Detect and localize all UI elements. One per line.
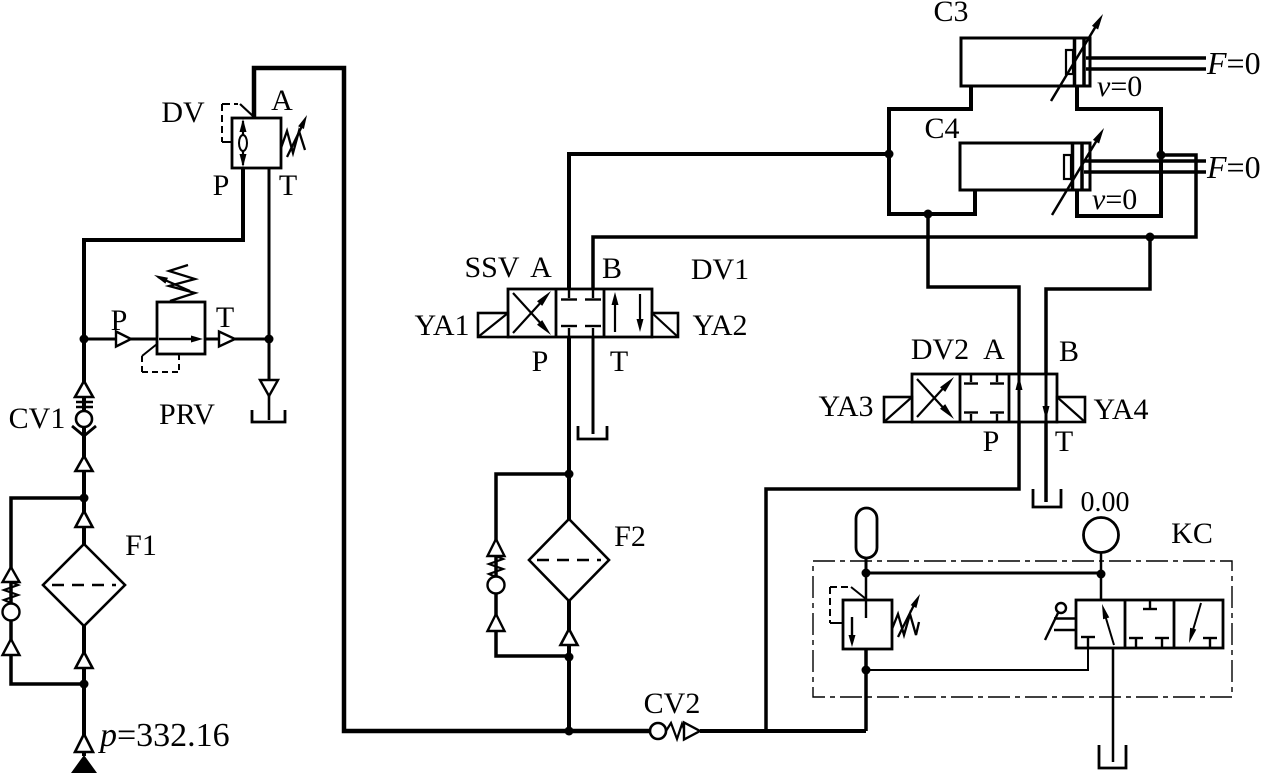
pressure gauge <box>1084 518 1119 553</box>
svg-text:YA1: YA1 <box>414 309 469 342</box>
label v=0 of C3 <box>1097 70 1142 103</box>
flow arrow above filter F1 <box>76 511 93 527</box>
wire DV P port to pump column <box>84 168 243 756</box>
svg-text:SSV: SSV <box>464 251 519 284</box>
svg-text:YA2: YA2 <box>692 309 747 342</box>
wire accumulator to gauge pilot line <box>866 553 1101 600</box>
svg-text:A: A <box>530 251 552 284</box>
check valve CV1 <box>72 381 96 436</box>
svg-text:T: T <box>1055 425 1073 458</box>
wire F1 bypass loop <box>11 498 84 684</box>
valve SSV/DV1 directional valve body <box>478 289 678 337</box>
svg-text:A: A <box>983 333 1005 366</box>
label YA3 <box>818 390 873 423</box>
label P of PRV <box>111 304 128 337</box>
label F=0 of C3 <box>1206 45 1261 81</box>
wire SSV P line through filter F2 to main line <box>567 337 571 731</box>
wire KC relief valve column <box>865 573 868 731</box>
label YA1 <box>414 309 469 342</box>
label T of SSV <box>610 345 628 378</box>
cylinder C4 <box>960 128 1206 215</box>
wire cylinder cap-side net C3/C4 <box>889 86 975 214</box>
valve DV2 directional valve body <box>884 374 1085 422</box>
label T of PRV <box>216 301 234 334</box>
label A of DV <box>271 84 293 117</box>
svg-text:P: P <box>213 169 230 202</box>
label CV2 <box>644 687 701 720</box>
flow arrow below F2 <box>561 629 578 645</box>
svg-text:KC: KC <box>1171 517 1213 550</box>
label C4 <box>924 112 959 145</box>
svg-text:P: P <box>111 304 128 337</box>
KC manual lever actuator <box>1045 603 1076 640</box>
label P of DV2 <box>983 425 1000 458</box>
svg-text:DV: DV <box>161 96 205 129</box>
label CV1 <box>9 402 66 435</box>
wire DV2 B branch and T to tank <box>1046 237 1150 502</box>
svg-text:C4: C4 <box>924 112 959 145</box>
svg-text:YA4: YA4 <box>1093 393 1148 426</box>
svg-text:CV1: CV1 <box>9 402 66 435</box>
flow arrow below filter F1 <box>76 652 93 668</box>
label A of SSV <box>530 251 552 284</box>
svg-text:v=0: v=0 <box>1092 183 1137 216</box>
svg-text:F1: F1 <box>125 529 157 562</box>
bypass check valve of F2 <box>488 539 505 631</box>
wire SSV B line to rod net <box>593 155 1196 289</box>
label F1 <box>125 529 157 562</box>
wire KC valve T line to tank <box>1112 648 1115 762</box>
label p=332.16 <box>98 717 230 754</box>
label DV <box>161 96 205 129</box>
label F2 <box>614 520 646 553</box>
filter F1 <box>43 544 125 626</box>
valve DV flow control with labels <box>222 104 307 168</box>
wire cylinder rod-side net C3/C4 <box>1077 86 1161 216</box>
check valve CV2 <box>650 723 700 740</box>
filter F2 <box>529 519 609 601</box>
svg-text:C3: C3 <box>933 0 968 28</box>
label B of DV2 <box>1059 335 1079 368</box>
tank symbol under PRV/DV T line <box>252 380 285 422</box>
wire DV2 A branch and P return to main line <box>766 214 1019 731</box>
svg-text:P: P <box>532 345 549 378</box>
svg-text:v=0: v=0 <box>1097 70 1142 103</box>
svg-text:T: T <box>610 345 628 378</box>
svg-text:F=0: F=0 <box>1206 45 1261 81</box>
svg-text:T: T <box>279 169 297 202</box>
pump source solid triangle <box>71 755 97 773</box>
label SSV <box>464 251 519 284</box>
svg-text:DV2: DV2 <box>911 333 969 366</box>
label F=0 of C4 <box>1206 149 1261 185</box>
svg-text:P: P <box>983 425 1000 458</box>
bypass check valve of F1 <box>3 567 20 655</box>
wire main pressure line from DV-A via long right/bottom run <box>254 68 866 731</box>
label P of DV <box>213 169 230 202</box>
KC manual directional valve <box>1076 600 1223 648</box>
label B of SSV <box>602 252 622 285</box>
svg-text:DV1: DV1 <box>691 253 749 286</box>
wire F2 bypass loop <box>496 474 569 656</box>
tank symbol under DV2 T <box>1033 489 1061 507</box>
wire SSV A line to cylinder cap net <box>569 154 889 289</box>
svg-text:B: B <box>1059 335 1079 368</box>
label DV2 <box>911 333 969 366</box>
svg-text:PRV: PRV <box>159 398 215 431</box>
flow arrow above pump <box>75 734 93 752</box>
label T of DV2 <box>1055 425 1073 458</box>
label KC <box>1171 517 1213 550</box>
label v=0 of C4 <box>1092 183 1137 216</box>
svg-text:p=332.16: p=332.16 <box>98 717 230 754</box>
label 0.00 <box>1081 487 1130 518</box>
svg-text:F=0: F=0 <box>1206 149 1261 185</box>
svg-text:YA3: YA3 <box>818 390 873 423</box>
valve PRV pressure reducing valve <box>116 265 235 372</box>
svg-text:CV2: CV2 <box>644 687 701 720</box>
junction node dots <box>80 150 1166 736</box>
svg-text:F2: F2 <box>614 520 646 553</box>
label P of SSV <box>532 345 549 378</box>
label DV1 <box>691 253 749 286</box>
label A of DV2 <box>983 333 1005 366</box>
svg-text:A: A <box>271 84 293 117</box>
label T of DV <box>279 169 297 202</box>
label YA2 <box>692 309 747 342</box>
flow arrow on pump column above F1 <box>76 456 93 471</box>
wire KC relief branch to KC valve port <box>866 648 1088 670</box>
wire PRV inlet and outlet line <box>84 338 269 341</box>
label PRV <box>159 398 215 431</box>
label YA4 <box>1093 393 1148 426</box>
KC relief valve <box>830 587 920 649</box>
wire SSV T to tank <box>592 337 595 434</box>
svg-text:T: T <box>216 301 234 334</box>
tank symbol under KC valve <box>1099 745 1126 768</box>
wire DV T port down to tank column <box>268 168 271 380</box>
KC dash-dot enclosure box <box>813 561 1232 697</box>
label C3 <box>933 0 968 28</box>
accumulator <box>856 508 877 558</box>
svg-text:0.00: 0.00 <box>1081 487 1130 518</box>
tank symbol under SSV T <box>578 426 607 439</box>
svg-text:B: B <box>602 252 622 285</box>
cylinder C3 <box>961 14 1206 101</box>
